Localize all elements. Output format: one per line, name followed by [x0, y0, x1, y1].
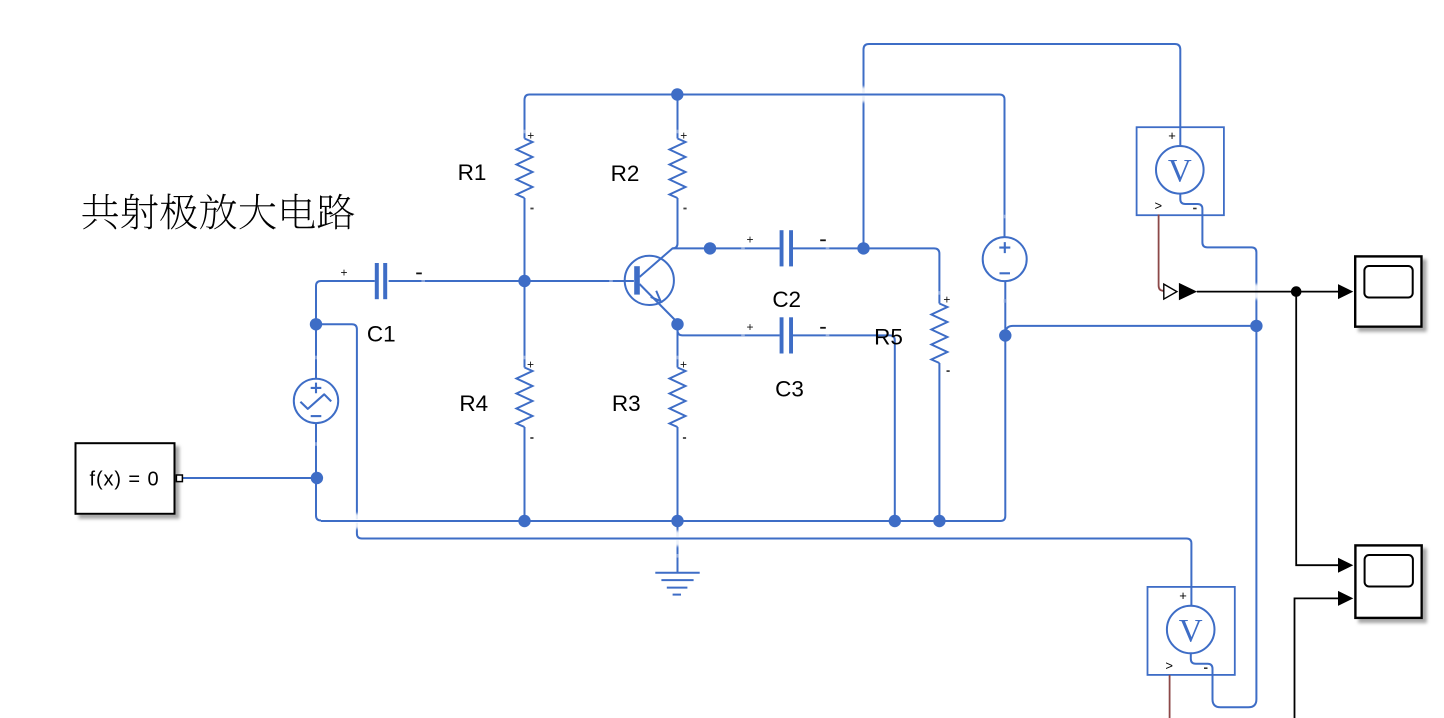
svg-text:C3: C3 — [775, 377, 804, 402]
svg-text:R5: R5 — [874, 325, 903, 350]
svg-text:+: + — [1168, 128, 1176, 143]
svg-text:V: V — [1179, 613, 1203, 649]
svg-text:+: + — [527, 129, 534, 143]
svg-text:R3: R3 — [612, 391, 641, 416]
svg-text:+: + — [943, 292, 950, 306]
svg-text:>: > — [1165, 658, 1173, 673]
svg-text:>: > — [1155, 198, 1163, 213]
svg-text:+: + — [746, 232, 753, 246]
svg-text:V: V — [1168, 154, 1192, 190]
svg-text:C1: C1 — [367, 321, 396, 346]
svg-text:C2: C2 — [772, 287, 801, 312]
svg-text:+: + — [680, 358, 687, 372]
svg-text:+: + — [1179, 588, 1187, 603]
svg-text:R4: R4 — [459, 391, 488, 416]
svg-text:+: + — [527, 358, 534, 372]
svg-text:+: + — [340, 266, 347, 280]
svg-text:R1: R1 — [458, 160, 487, 185]
svg-text:+: + — [680, 129, 687, 143]
svg-text:R2: R2 — [611, 161, 640, 186]
svg-text:+: + — [746, 320, 753, 334]
svg-text:f(x) = 0: f(x) = 0 — [90, 469, 160, 491]
